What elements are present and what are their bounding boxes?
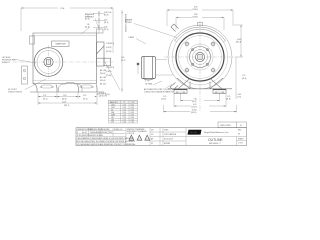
svg-text:1.38 [35.1]: 1.38 [35.1] [106,43,115,45]
tolerance triangles [129,135,150,140]
rear bracket left [22,66,28,84]
svg-text:CONDUIT BOX CAN BE ROTATED 90°: CONDUIT BOX CAN BE ROTATED 90° [144,90,174,93]
cross ticks on bolt holes [184,41,216,73]
slot arrow clusters under feet [175,92,224,93]
lower housing hump [59,83,83,93]
svg-text:[149.4]: [149.4] [100,73,106,75]
svg-text:O-RING: O-RING [128,37,135,39]
svg-text:OIL SEAL: OIL SEAL [145,83,153,86]
grease box on top right of body [97,29,104,33]
svg-text:[57.2]: [57.2] [83,99,88,101]
foot slots [42,85,53,88]
svg-text:1.25: 1.25 [242,75,245,77]
keyway datum symbol [137,63,139,65]
svg-text:OF DESIGN AND INVENTION ARE RE: OF DESIGN AND INVENTION ARE RESERVED. PR… [77,143,136,146]
svg-text:[31.8]: [31.8] [162,99,167,101]
svg-text:[63.5]: [63.5] [192,101,197,103]
svg-text:EYEBOLT: EYEBOLT [2,62,10,64]
svg-text:±.01 [0.3]: ±.01 [0.3] [127,133,135,135]
svg-text:3.50: 3.50 [123,122,126,124]
overall length dimension line top [21,8,113,53]
bolt holes diagonal [185,42,215,72]
svg-text:[42.9]: [42.9] [62,99,67,101]
svg-text:ORIG: ORIG [164,130,169,132]
svg-text:OUTLINE: OUTLINE [208,138,223,142]
vertical dim stack lines x=99 [93,10,122,92]
right side dims of end view [234,25,243,99]
svg-text:No. 01: No. 01 [82,132,87,134]
svg-text:[281.7]: [281.7] [64,105,70,107]
top tab [197,23,202,26]
svg-text:BASE NO.: BASE NO. [110,101,119,104]
svg-text:[7.6]: [7.6] [238,97,242,99]
svg-text:CONDUIT HOLES: CONDUIT HOLES [8,92,23,94]
svg-text:[59.9]: [59.9] [104,15,109,17]
flange at right of body [97,42,105,66]
svg-text:[31.8]: [31.8] [226,99,231,101]
feet and base [30,84,104,93]
svg-text:[125.7]: [125.7] [192,107,198,109]
svg-text:REF 60050 * C: REF 60050 * C [209,143,222,145]
X gussets between circle and base [177,78,223,89]
shaft stub [104,58,111,66]
svg-text:(2.875): (2.875) [106,71,112,73]
svg-text:ASSEMBLY: ASSEMBLY [85,16,95,19]
nameplate [52,41,70,46]
bottom dims of end view [164,93,237,112]
svg-text:[73.03]: [73.03] [106,75,112,77]
svg-text:2.25: 2.25 [83,95,86,97]
motor body outline [33,33,97,84]
stator dark circle [172,29,228,85]
svg-text:2.25: 2.25 [43,95,46,97]
svg-text:1.25 [31.8]: 1.25 [31.8] [106,67,115,69]
svg-text:17.48: 17.48 [60,8,64,10]
svg-text:(7.50): (7.50) [105,94,110,96]
centerlines side view [13,61,113,63]
fan cover circle [34,48,63,77]
drip hood arc over top [175,27,226,41]
svg-text:[27.7]: [27.7] [121,60,126,62]
lug bottom left [170,83,178,91]
svg-text:(0.875): (0.875) [106,47,112,49]
svg-text:[22.23]: [22.23] [106,51,112,53]
svg-text:1.69: 1.69 [63,95,66,97]
svg-text:CURT LARSON: CURT LARSON [164,133,177,136]
svg-text:01: 01 [240,125,242,127]
svg-text:IF IN QUESTION: IF IN QUESTION [77,135,91,137]
svg-text:E29388: E29388 [164,143,170,145]
svg-text:NAMEPLATE: NAMEPLATE [56,43,67,46]
svg-text:[149.9]: [149.9] [191,112,197,114]
base line and feet end view [168,89,232,94]
svg-text:[31.8]: [31.8] [242,78,247,80]
svg-text:05-10-2013: 05-10-2013 [164,139,173,141]
svg-text:SCALE 1:4: SCALE 1:4 [114,128,122,131]
logo black box [188,130,202,135]
dark feet tops [174,89,187,91]
svg-text:DT: DT [151,143,153,145]
svg-text:[27.0]: [27.0] [104,29,109,31]
svg-text:[149.4]: [149.4] [100,80,106,82]
svg-text:SHEET: SHEET [238,139,244,141]
svg-text:[27.9]: [27.9] [85,19,90,21]
svg-text:[41.4]: [41.4] [104,22,109,24]
svg-text:VERIFY W/ ENG: VERIFY W/ ENG [90,135,103,137]
svg-text:213: 213 [111,122,114,124]
bottom dims side view [38,92,97,105]
lifting lug top left of circle [171,24,179,32]
svg-text:Regal Beloit America, Inc.: Regal Beloit America, Inc. [204,131,229,134]
svg-text:11.09: 11.09 [62,102,66,104]
lifting lug top-left [30,36,35,44]
svg-text:[57.2]: [57.2] [43,99,48,101]
svg-text:FITTING: FITTING [125,22,132,24]
top dims [167,10,233,30]
svg-text:AJ 5.88: AJ 5.88 [100,76,106,79]
svg-text:CMPLD SPEC: CMPLD SPEC [220,125,232,127]
slot arrows side view [39,87,94,88]
main circles [168,25,232,89]
svg-text:NOT BE USED EXCEPT IN CONNECTI: NOT BE USED EXCEPT IN CONNECTION WITH OU… [77,140,136,143]
svg-text:03: 03 [238,134,240,136]
centerlines end view [164,56,236,58]
svg-text:[149.4]: [149.4] [193,17,199,19]
svg-text:1 OF 1: 1 OF 1 [238,143,243,145]
svg-text:THIS DRAWING IN DESIGN AND DET: THIS DRAWING IN DESIGN AND DETAIL IS OUR… [77,137,134,140]
svg-text:[112.3]: [112.3] [236,42,242,44]
svg-text:REL: REL [238,130,241,132]
svg-text:PROJECTION: PROJECTION [101,132,113,134]
svg-text:[164.6]: [164.6] [193,9,199,11]
svg-text:INCH [MM]: INCH [MM] [101,129,110,131]
svg-text:AK 4.50: AK 4.50 [100,83,106,86]
svg-text:REGAL: REGAL [190,131,198,134]
svg-text:1.09: 1.09 [121,57,124,59]
svg-text:7.00: 7.00 [131,122,134,124]
